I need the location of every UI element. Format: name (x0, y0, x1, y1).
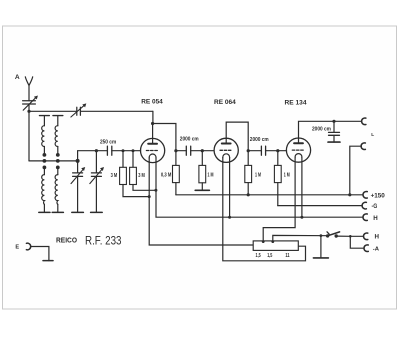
terminal -G (362, 202, 366, 209)
junction L2 on +150 bus (348, 193, 351, 196)
terminal +150 (363, 191, 367, 198)
junction V2 grid node (201, 149, 204, 152)
wire V3 plate to L terminal (299, 121, 362, 143)
resistor R1 3M (111, 151, 150, 197)
svg-text:RE 134: RE 134 (285, 99, 307, 106)
svg-text:R.F. 233: R.F. 233 (85, 234, 122, 248)
tube V3 filament (295, 154, 302, 158)
tap contacts L1 (43, 153, 47, 169)
inductor L1 upper (42, 126, 45, 147)
coil L2 top terminal bar (53, 115, 63, 117)
svg-text:H: H (373, 215, 378, 222)
wire (57, 147, 59, 154)
svg-text:250 cm: 250 cm (100, 139, 116, 145)
svg-text:1 M: 1 M (255, 172, 261, 178)
ground bar switch (313, 257, 328, 259)
wire V2 plate up and over (226, 122, 248, 165)
wire E to ground (31, 247, 49, 261)
svg-text:1,5: 1,5 (256, 253, 261, 259)
capacitor C5 250cm (107, 146, 111, 155)
wire plate node to coupling (153, 124, 176, 166)
svg-text:RE 064: RE 064 (214, 99, 236, 106)
capacitor C2 series trimmer (71, 103, 86, 117)
resistor R4 1M grid leak (199, 151, 214, 191)
svg-text:+150: +150 (371, 193, 386, 199)
wire (43, 116, 45, 126)
ground bar C4 (91, 211, 103, 213)
ground bar E (43, 260, 53, 262)
inductor L2 upper (55, 126, 58, 147)
svg-text:RE 054: RE 054 (141, 98, 163, 105)
wire top bus right segment (80, 110, 152, 112)
wire top bus down to plate node (152, 111, 154, 123)
capacitor C7 2000cm coupling (248, 137, 286, 155)
svg-text:11: 11 (285, 253, 289, 259)
coil L1 top terminal bar (40, 115, 50, 117)
node R1 top (122, 149, 125, 152)
svg-text:0,3 M: 0,3 M (161, 172, 171, 178)
ground bar C8 (328, 141, 340, 143)
wire V1 filament left leg (149, 158, 253, 245)
wire tap node up to grid line (78, 151, 97, 161)
wire switch to H2 (336, 235, 363, 237)
junction C8 node (332, 120, 335, 123)
ground bar L2 (52, 211, 63, 213)
svg-text:E: E (15, 245, 19, 251)
svg-text:-G: -G (372, 204, 378, 210)
wire grid line 1b (112, 150, 141, 152)
tube V3 anode (294, 142, 303, 144)
svg-text:3 M: 3 M (138, 173, 145, 179)
wire ground branch (320, 236, 322, 258)
junction H2 A branch (349, 235, 352, 238)
ground bar R4 (195, 189, 209, 191)
junction coupling node (174, 149, 177, 152)
wire V3 filament left leg to pot tap (263, 157, 295, 241)
wire V3 filament right leg to H bus (301, 157, 303, 217)
tube V2 envelope (214, 138, 238, 162)
tap contacts L2 (56, 153, 60, 169)
wire (43, 147, 45, 154)
resistor R6 1M grid (274, 151, 289, 206)
rheostat tap contacts (262, 240, 265, 243)
switch S1 (326, 232, 340, 238)
terminal L2 (361, 143, 365, 150)
svg-text:3 M: 3 M (111, 173, 118, 179)
tube V2 anode (222, 143, 231, 145)
wire V1 filament right leg to H bus (156, 158, 363, 217)
junction right leg H bus (228, 216, 231, 219)
terminal H (363, 214, 367, 221)
resistor R5 1M plate load (245, 165, 261, 194)
wire tap bus (29, 160, 78, 162)
tube V1 filament (149, 154, 156, 158)
capacitor C6 2000cm coupling (176, 136, 214, 155)
junction R5 on +150 bus (247, 193, 250, 196)
tube V1 envelope (141, 138, 165, 162)
svg-text:L: L (371, 132, 374, 138)
resistor R3 0.3M (161, 165, 179, 194)
tube V1 grid (146, 150, 158, 152)
tube V2 filament (223, 154, 230, 158)
terminal L1 (362, 118, 366, 125)
tube V3 envelope (286, 138, 310, 162)
svg-text:2000 cm: 2000 cm (180, 136, 199, 142)
svg-text:2000 cm: 2000 cm (312, 127, 331, 133)
tube V1 anode (148, 143, 157, 145)
wire grid line 1 (96, 150, 107, 152)
capacitor C1 antenna trimmer (23, 96, 38, 111)
svg-text:-A: -A (373, 246, 379, 252)
svg-text:A: A (15, 74, 20, 81)
resistor R2 3M (130, 151, 156, 191)
junction V3 coupling node (247, 149, 250, 152)
junction ground branch (320, 234, 323, 237)
wire G bus (278, 205, 362, 207)
svg-text:H: H (375, 234, 380, 241)
inductor L2 lower (55, 167, 58, 212)
junction R1 to left leg (148, 195, 151, 198)
wire antenna down (28, 86, 30, 101)
wire to -A (350, 236, 364, 248)
terminal E (26, 243, 30, 250)
svg-text:1 M: 1 M (208, 172, 214, 178)
junction tap bus (76, 159, 80, 163)
wire V1 plate up (152, 124, 154, 144)
junction V3 grid node (276, 149, 279, 152)
terminal H2 (364, 233, 368, 240)
wire V2 filament left leg to heater loop (223, 158, 306, 261)
capacitor C4 variable tuning (90, 151, 104, 213)
junction antenna node (27, 110, 30, 113)
terminal -A (364, 245, 368, 252)
wire tap2 to switch (273, 235, 328, 241)
junction C4 node (95, 149, 98, 152)
tube V2 grid (220, 149, 232, 151)
wire cap to node (28, 104, 30, 111)
wire top bus left segment (29, 110, 77, 112)
junction R2 to right leg (154, 189, 157, 192)
ground bar L1 (39, 211, 50, 213)
capacitor C3 variable tuning (71, 161, 85, 213)
capacitor C8 2000cm bypass (312, 121, 340, 142)
inductor L1 lower (42, 167, 45, 212)
antenna (25, 77, 32, 86)
svg-text:REICO: REICO (56, 238, 78, 245)
rheostat box (253, 241, 298, 251)
wire (57, 116, 59, 126)
ground bar C3 (72, 211, 84, 213)
svg-text:1 M: 1 M (284, 172, 290, 178)
wire +150 bus (176, 194, 363, 196)
wire V2 filament right leg to H bus (229, 158, 231, 218)
svg-text:2000 cm: 2000 cm (250, 137, 269, 143)
tube V3 grid (292, 149, 304, 151)
wire antenna column down to tap bus (28, 111, 30, 161)
junction V3 right leg H bus (300, 216, 303, 219)
svg-text:1,5: 1,5 (267, 253, 272, 259)
wire L2 to +150 bus (350, 146, 361, 195)
junction V1 plate node (151, 122, 154, 125)
node R2 top (132, 149, 135, 152)
